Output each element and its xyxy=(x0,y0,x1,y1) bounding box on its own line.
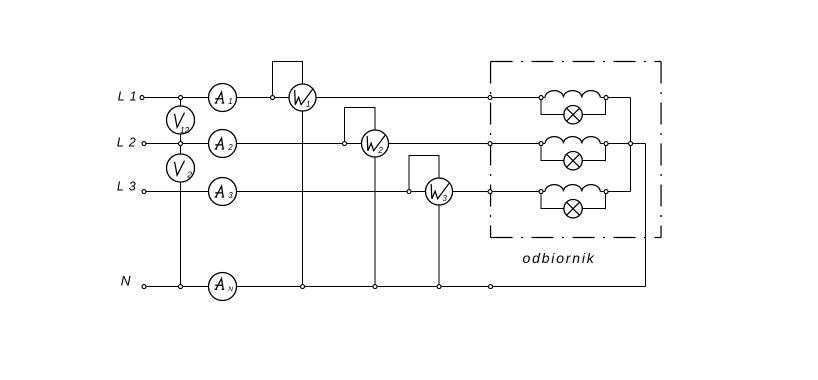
wire W3 voltage bridge xyxy=(409,156,439,192)
svg-text:1: 1 xyxy=(306,100,310,109)
wire N neutral line xyxy=(145,286,646,288)
inductor load phase 2 coil xyxy=(545,137,600,144)
svg-text:12: 12 xyxy=(180,125,190,135)
svg-text:2: 2 xyxy=(186,169,192,179)
wire W1 down to N xyxy=(302,111,304,287)
ammeter A3 xyxy=(209,178,237,206)
terminal box L2 xyxy=(488,142,492,146)
wire lamp bridge phase 2 xyxy=(541,144,606,161)
junction L1-V12 xyxy=(179,96,183,100)
terminal coil 3 left xyxy=(539,190,543,194)
ammeter A2 xyxy=(209,130,237,158)
voltmeter V12 xyxy=(167,106,195,135)
wire V12 stubs L1 to L2 xyxy=(180,98,182,144)
junction N-W2 xyxy=(373,285,377,289)
wire L2 phase line xyxy=(145,143,631,145)
svg-text:3: 3 xyxy=(228,191,233,200)
svg-text:3: 3 xyxy=(442,194,447,203)
inductor load phase 1 coil xyxy=(545,91,600,98)
svg-text:N: N xyxy=(121,274,131,289)
svg-text:L 2: L 2 xyxy=(117,136,137,150)
terminal coil 2 left xyxy=(539,142,543,146)
wattmeter W3 xyxy=(426,178,453,205)
load box dash-dot border xyxy=(491,62,662,238)
ammeter A1 xyxy=(209,84,237,112)
terminal coil 3 right xyxy=(604,190,608,194)
lamp E2 xyxy=(564,152,582,170)
voltmeter V2 xyxy=(167,154,195,182)
node N label xyxy=(121,274,131,289)
terminal L1 xyxy=(140,96,144,100)
wire neutral return xyxy=(631,144,646,287)
junction L2-W2 bridge xyxy=(343,142,347,146)
svg-text:odbiornik: odbiornik xyxy=(523,250,596,266)
svg-text:L 1: L 1 xyxy=(118,89,138,103)
svg-text:2: 2 xyxy=(377,146,383,155)
wire star point vertical xyxy=(630,98,632,192)
junction N-V2 xyxy=(179,285,183,289)
lamp E1 xyxy=(564,106,582,124)
junction L1-W1 bridge xyxy=(271,96,275,100)
terminal box L3 xyxy=(488,190,492,194)
node L3 label xyxy=(117,180,137,194)
terminal N at box edge xyxy=(489,285,493,289)
node L2 label xyxy=(117,136,137,150)
wire V2 stub and run to N xyxy=(180,144,182,287)
node L1 label xyxy=(118,89,138,103)
junction star L2 xyxy=(629,142,633,146)
terminal L2 xyxy=(142,142,146,146)
wire W2 down to N xyxy=(374,157,376,287)
junction L3-W3 bridge xyxy=(407,190,411,194)
wire lamp bridge phase 3 xyxy=(541,192,606,209)
junction N-W1 xyxy=(301,285,305,289)
terminal box L1 xyxy=(488,96,492,100)
wire lamp bridge phase 1 xyxy=(541,98,606,115)
wire W3 down to N xyxy=(438,205,440,287)
terminal coil 1 left xyxy=(539,96,543,100)
terminal L3 xyxy=(142,190,146,194)
terminal coil 2 right xyxy=(604,142,608,146)
svg-text:N: N xyxy=(228,286,233,293)
wattmeter W1 xyxy=(289,84,316,111)
wattmeter W2 xyxy=(362,130,389,157)
inductor load phase 3 coil xyxy=(545,185,600,192)
terminal N xyxy=(142,285,146,289)
wire W1 voltage bridge xyxy=(273,62,303,98)
wire L3 phase line xyxy=(145,191,631,193)
svg-text:2: 2 xyxy=(227,143,233,152)
wire W2 voltage bridge xyxy=(345,108,376,144)
odbiornik label xyxy=(523,250,596,266)
terminal coil 1 right xyxy=(604,96,608,100)
ammeter AN xyxy=(209,273,237,301)
lamp E3 xyxy=(564,200,582,218)
junction N-W3 xyxy=(437,285,441,289)
svg-text:1: 1 xyxy=(228,97,232,106)
wire L1 phase line xyxy=(145,97,631,99)
svg-text:L 3: L 3 xyxy=(117,180,137,194)
junction L2-V12/V2 xyxy=(179,142,183,146)
